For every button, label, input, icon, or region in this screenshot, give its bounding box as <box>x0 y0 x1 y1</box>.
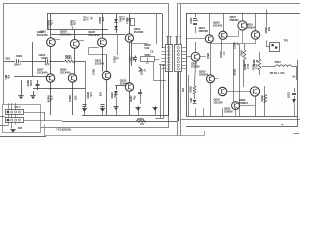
svg-text:CB11: CB11 <box>128 57 131 64</box>
svg-text:RB25: RB25 <box>264 27 267 34</box>
svg-text:SB1: SB1 <box>5 57 10 60</box>
svg-text:220: 220 <box>99 92 102 97</box>
svg-text:2SB56B: 2SB56B <box>199 30 209 33</box>
svg-text:2SD880: 2SD880 <box>120 81 130 85</box>
svg-text:2SC945: 2SC945 <box>213 24 223 27</box>
svg-text:1/2W: 1/2W <box>29 80 32 86</box>
svg-text:RB0: RB0 <box>4 75 6 80</box>
svg-text:2SD880: 2SD880 <box>224 111 233 114</box>
svg-text:RB08: RB08 <box>86 92 89 99</box>
svg-text:RB49: RB49 <box>26 80 29 87</box>
svg-text:24.3: 24.3 <box>246 64 249 69</box>
svg-text:CB05: CB05 <box>39 53 46 57</box>
svg-text:CN: CN <box>140 123 144 126</box>
svg-text:RB23: RB23 <box>219 52 222 59</box>
svg-text:PB 06 1 .25A: PB 06 1 .25A <box>270 72 285 75</box>
svg-text:47p: 47p <box>133 96 136 101</box>
svg-text:RB15: RB15 <box>113 57 116 64</box>
svg-text:CB37: CB37 <box>286 92 289 99</box>
svg-text:+: + <box>282 123 284 127</box>
svg-text:TP1: TP1 <box>284 39 289 43</box>
svg-text:1S5: 1S5 <box>121 16 124 21</box>
svg-text:2SD880: 2SD880 <box>230 19 240 22</box>
svg-text:100: 100 <box>101 17 105 22</box>
svg-text:220: 220 <box>74 96 78 101</box>
svg-text:1.2: 1.2 <box>86 17 90 21</box>
svg-text:24.3: 24.3 <box>254 64 257 69</box>
svg-text:4.7k: 4.7k <box>50 96 54 102</box>
svg-text:2SC945A: 2SC945A <box>37 72 48 75</box>
svg-text:2SA564A: 2SA564A <box>88 33 99 37</box>
svg-text:5.6k: 5.6k <box>144 46 150 50</box>
svg-text:41B: 41B <box>18 127 23 130</box>
svg-text:CB09: CB09 <box>110 92 113 99</box>
svg-text:*-CH(2ΩB): *-CH(2ΩB) <box>56 128 71 132</box>
svg-text:2SB834: 2SB834 <box>246 26 256 29</box>
svg-text:220: 220 <box>181 88 184 93</box>
svg-text:4.7k: 4.7k <box>89 92 92 97</box>
svg-text:2SA56B: 2SA56B <box>134 31 144 34</box>
svg-text:RB17: RB17 <box>91 69 94 76</box>
svg-text:CN01: CN01 <box>16 54 23 58</box>
svg-text:2SC945: 2SC945 <box>95 62 105 66</box>
svg-text:1k2: 1k2 <box>127 18 130 23</box>
svg-text:4.7: 4.7 <box>222 52 225 56</box>
svg-text:CB21: CB21 <box>189 18 192 25</box>
svg-text:RB21: RB21 <box>206 53 209 60</box>
svg-text:RB33: RB33 <box>251 64 254 71</box>
svg-text:2SC945: 2SC945 <box>214 101 224 104</box>
svg-text:2.2k: 2.2k <box>73 20 77 26</box>
svg-text:CB05: CB05 <box>129 96 132 103</box>
svg-text:RB11: RB11 <box>68 96 72 103</box>
svg-text:DB01: DB01 <box>118 16 121 23</box>
svg-text:DB1: DB1 <box>189 98 191 103</box>
svg-text:LT1-4: LT1-4 <box>15 106 22 109</box>
svg-text:+B: +B <box>292 75 296 79</box>
svg-text:CB01: CB01 <box>40 31 47 34</box>
svg-text:RB35: RB35 <box>260 96 263 103</box>
svg-text:2SD880: 2SD880 <box>191 65 200 68</box>
svg-text:BN+7: BN+7 <box>15 62 22 66</box>
svg-text:FB01: FB01 <box>275 61 282 64</box>
svg-text:RB11: RB11 <box>65 54 72 58</box>
svg-text:560: 560 <box>267 27 270 32</box>
svg-text:47P: 47P <box>45 63 50 67</box>
svg-text:2SC945A: 2SC945A <box>60 72 71 75</box>
svg-text:2SB834: 2SB834 <box>239 102 249 105</box>
svg-text:2.2k: 2.2k <box>50 20 54 26</box>
svg-text:RB29: RB29 <box>233 69 236 76</box>
svg-text:RB25: RB25 <box>189 87 192 94</box>
